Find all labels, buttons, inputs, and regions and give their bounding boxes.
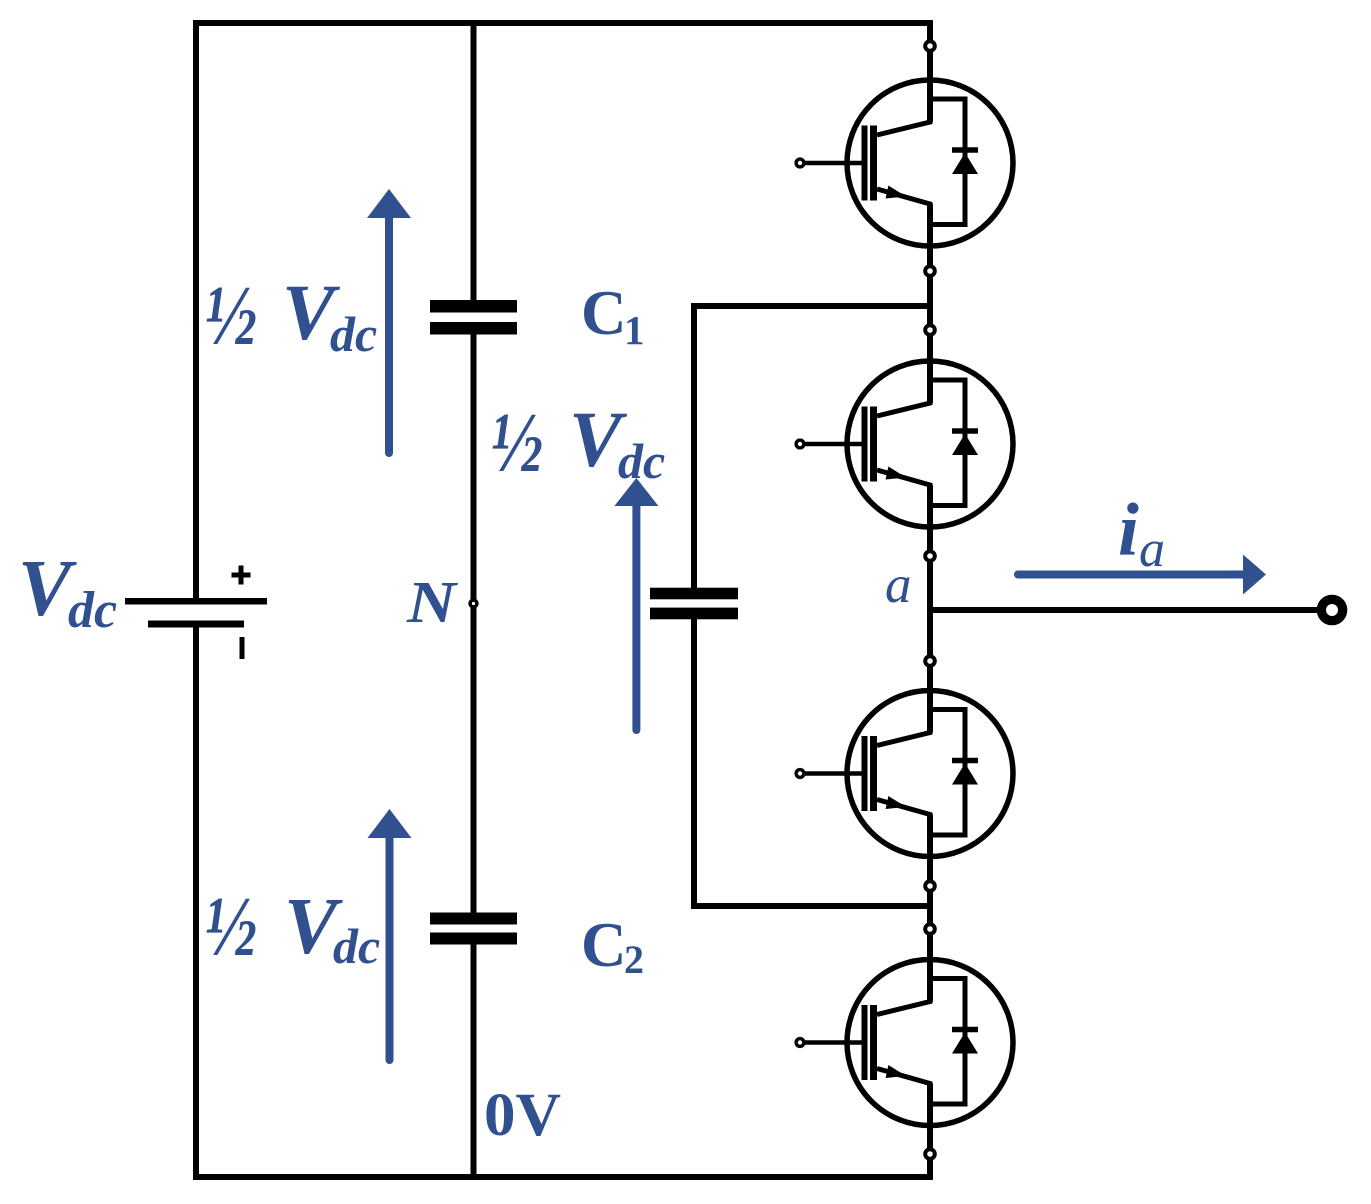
flying capacitor plates [650, 588, 738, 620]
label C1 [581, 278, 645, 353]
node top bus junction [925, 41, 935, 51]
arrow ia output current [1018, 555, 1266, 595]
node N junction dot [470, 600, 477, 607]
wire capacitor string middle [471, 330, 477, 916]
arrow half Vdc upper-left [367, 189, 411, 453]
node Q4 collector [925, 924, 935, 934]
wire left rail lower [193, 627, 199, 1180]
svg-text:2: 2 [624, 937, 644, 982]
node Q1 emitter [925, 266, 935, 276]
node Q4 emitter [925, 1149, 935, 1159]
transistor Q4 (IGBT with diode) [796, 960, 1013, 1126]
capacitor C1 plates [430, 300, 517, 335]
wire left rail upper [193, 20, 199, 598]
arrow half Vdc lower-left [368, 809, 412, 1060]
svg-text:dc: dc [333, 918, 380, 974]
label half Vdc middle [491, 394, 665, 490]
battery minus sign [240, 637, 245, 659]
svg-text:½: ½ [491, 394, 543, 490]
label ia current [1118, 489, 1165, 578]
svg-text:N: N [406, 569, 459, 635]
label Vdc source [18, 545, 117, 639]
transistor Q3 (IGBT with diode) [796, 691, 1013, 857]
label half Vdc upper-left [205, 267, 377, 363]
battery plus sign [232, 566, 251, 585]
svg-text:a: a [1139, 521, 1165, 578]
svg-text:a: a [885, 556, 912, 614]
wire flying-cap bottom branch [694, 614, 930, 906]
wire output line [930, 607, 1322, 613]
transistor Q1 (IGBT with diode) [796, 80, 1013, 246]
wire capacitor string upper [471, 20, 477, 302]
svg-text:dc: dc [618, 433, 665, 489]
svg-text:½: ½ [205, 267, 257, 363]
svg-text:dc: dc [330, 306, 377, 362]
wire flying-cap top branch [694, 306, 930, 593]
node Q3 emitter [925, 881, 935, 891]
svg-text:C: C [581, 278, 627, 348]
wire bottom bus [193, 1174, 930, 1180]
node Q2 emitter [925, 551, 935, 561]
transistor Q2 (IGBT with diode) [796, 361, 1013, 527]
label C2 [581, 910, 644, 982]
node Q2 collector [925, 325, 935, 335]
svg-text:½: ½ [205, 878, 257, 974]
battery Vdc positive plate [125, 598, 267, 605]
node Q3 collector [925, 656, 935, 666]
svg-text:i: i [1118, 489, 1139, 572]
wire main vertical leg [927, 20, 933, 1180]
arrow half Vdc middle [614, 478, 658, 730]
label half Vdc lower-left [205, 878, 380, 974]
capacitor C2 plates [430, 913, 517, 945]
battery Vdc negative plate [148, 621, 244, 628]
output terminal [1321, 599, 1342, 620]
svg-text:C: C [581, 910, 627, 980]
svg-text:0V: 0V [484, 1082, 561, 1149]
svg-text:1: 1 [624, 307, 645, 353]
svg-text:dc: dc [68, 582, 117, 639]
wire top bus [193, 20, 930, 26]
wire capacitor string lower [471, 936, 477, 1180]
